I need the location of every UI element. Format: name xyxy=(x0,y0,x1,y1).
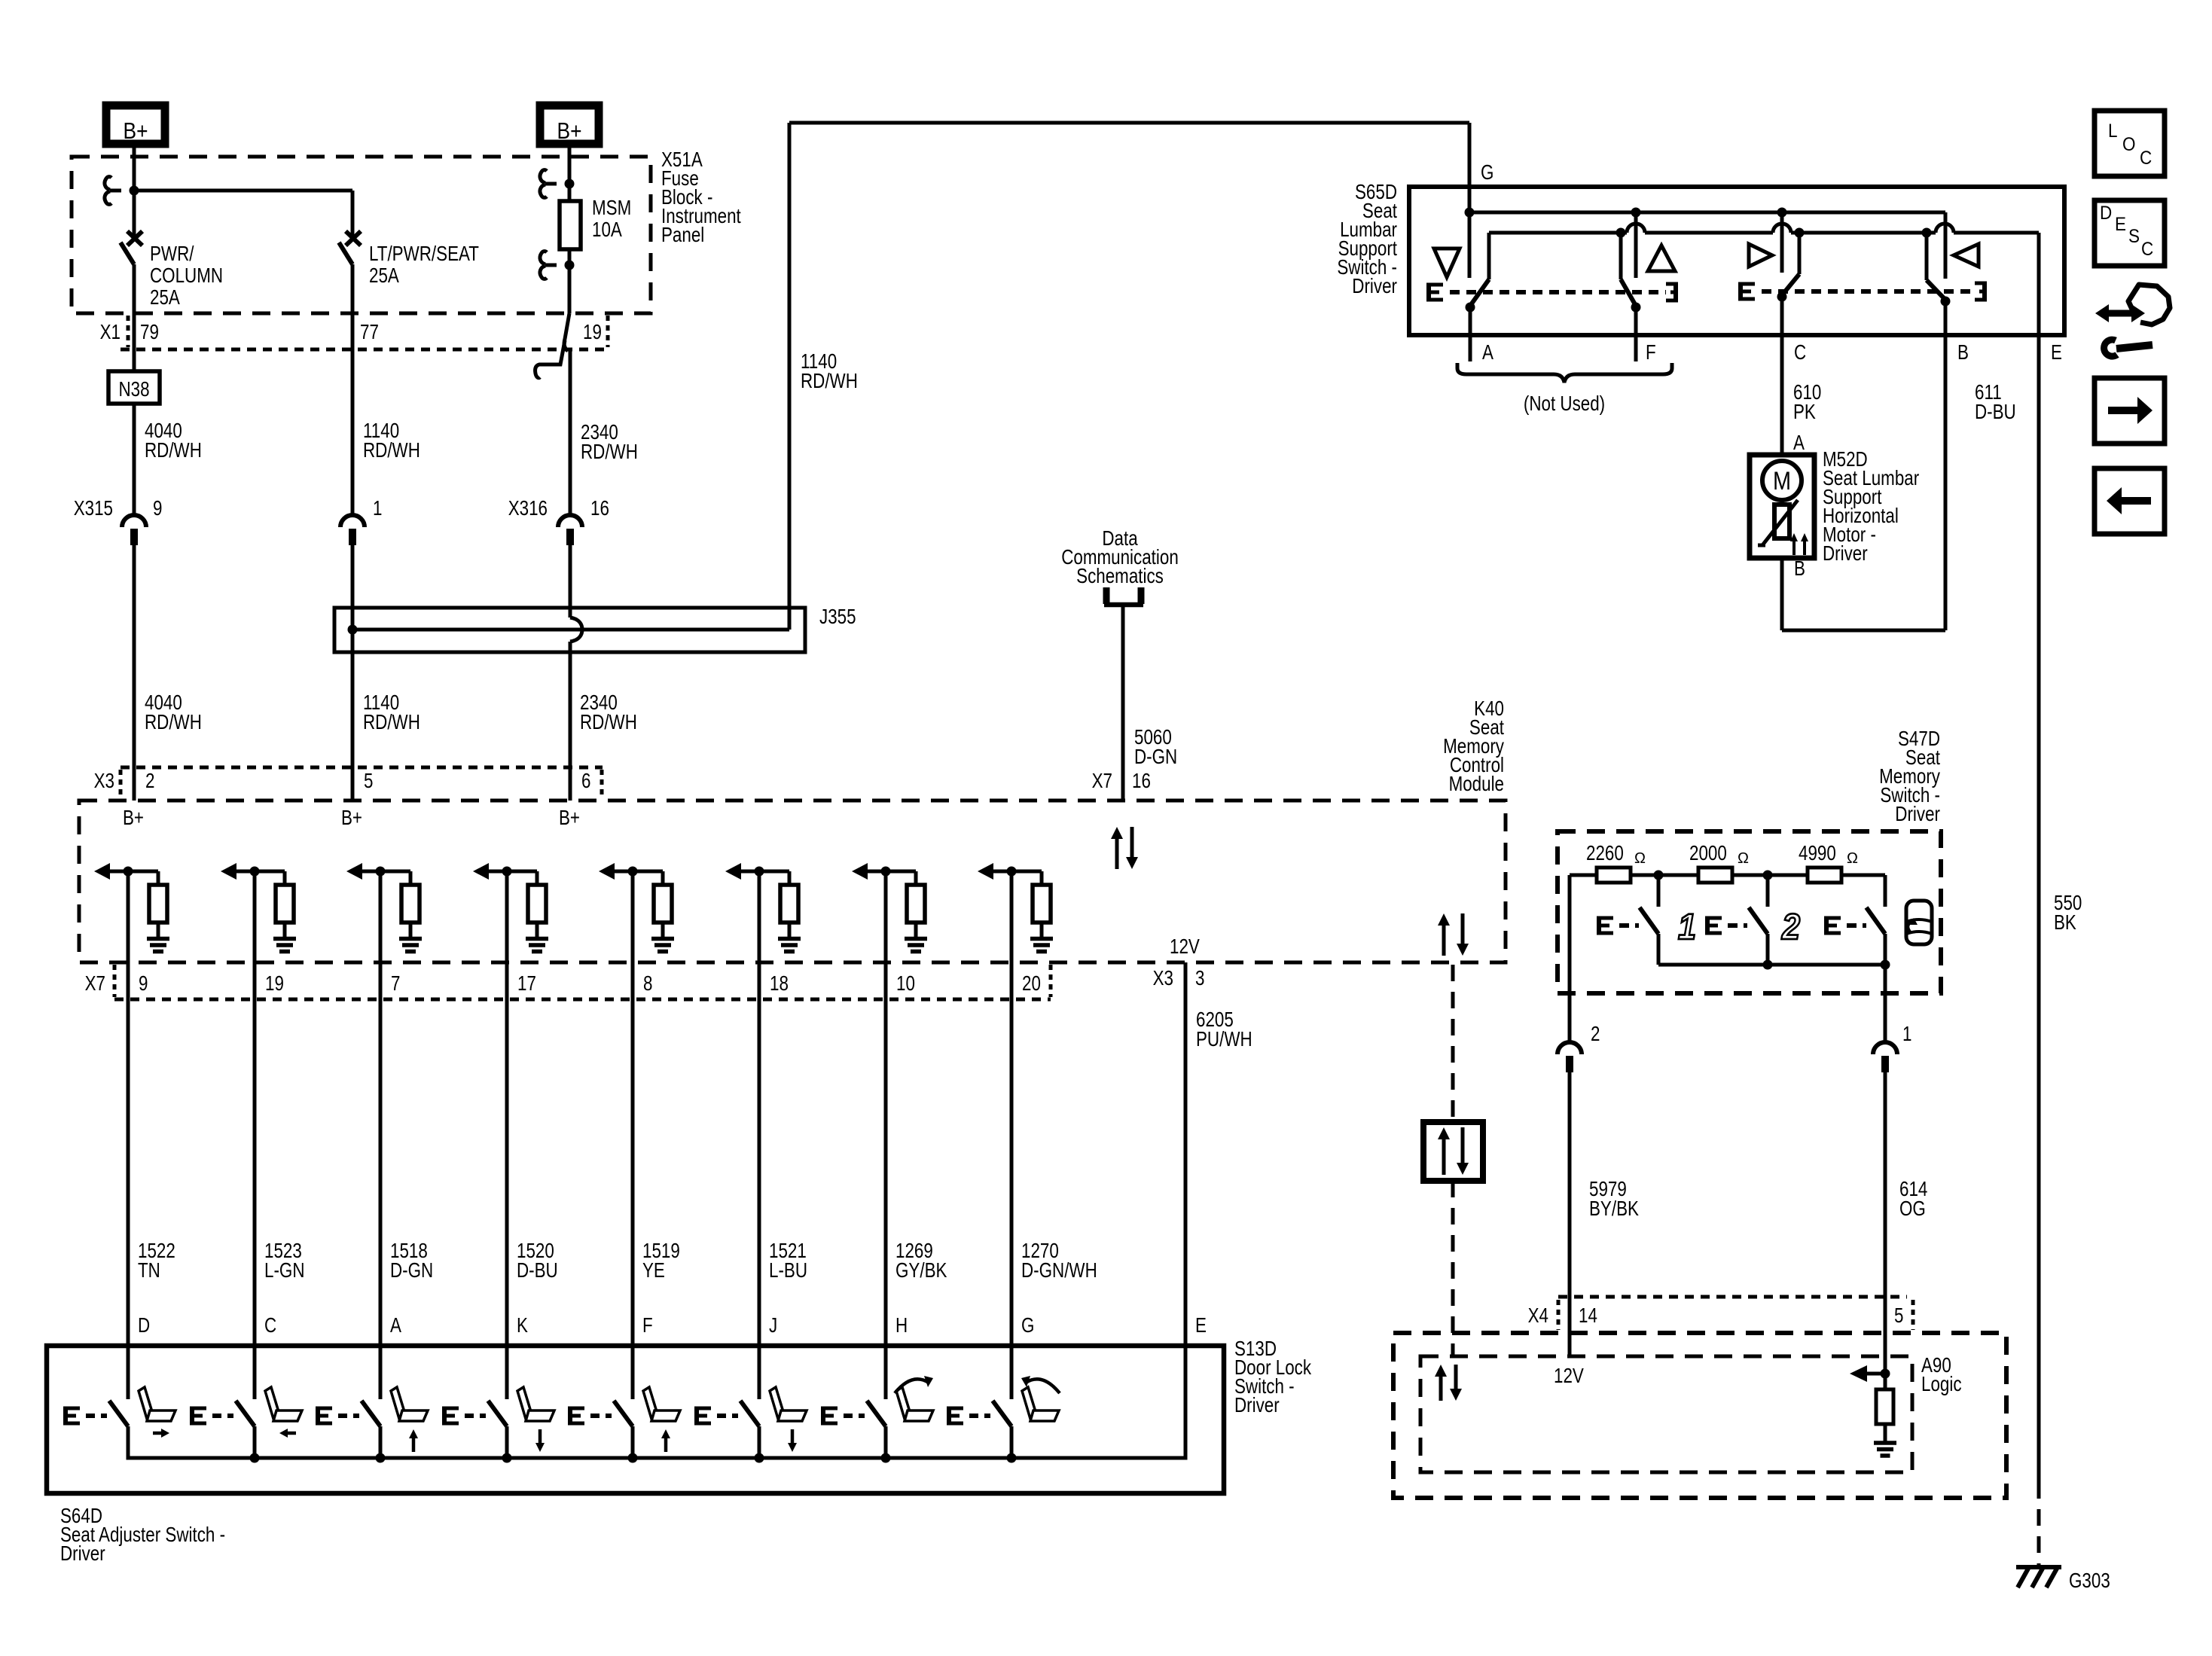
label S47D Seat Memory Switch - Driver xyxy=(1879,727,1940,826)
svg-text:K: K xyxy=(517,1314,528,1337)
svg-text:E: E xyxy=(1195,1314,1207,1337)
wire 1140 feed up and across to S65D xyxy=(789,123,1469,630)
S65D mechanical linkage (right pair) xyxy=(1741,282,1985,302)
wire 1140 to K40 pin 5 xyxy=(351,630,355,801)
svg-text:Module: Module xyxy=(1449,773,1504,796)
fuse block X51A (dashed outline) xyxy=(72,157,651,313)
K40 output driver cell 1: arrow, pull resistor, ground xyxy=(94,863,169,952)
svg-text:C: C xyxy=(1794,341,1806,364)
svg-text:D-BU: D-BU xyxy=(1975,401,2016,424)
connector X3 pin 3 xyxy=(1153,967,1205,990)
svg-text:D-GN: D-GN xyxy=(1134,746,1177,769)
module A90 outer boundary (dashed) xyxy=(1393,1333,2006,1498)
svg-text:X316: X316 xyxy=(508,497,548,520)
fuse MSM 10A xyxy=(560,146,581,313)
A90 logic input: arrow, resistor, ground xyxy=(1850,1365,1896,1456)
wire label 2340 RD/WH (upper) xyxy=(581,421,638,464)
svg-text:1: 1 xyxy=(1678,907,1696,947)
wire label 6205 PU/WH xyxy=(1196,1008,1252,1051)
svg-text:B: B xyxy=(1957,341,1969,364)
svg-text:RD/WH: RD/WH xyxy=(363,439,420,462)
wire G into switch xyxy=(1465,188,1475,278)
svg-text:RD/WH: RD/WH xyxy=(145,439,202,462)
bidirectional link symbol (boxed arrows) xyxy=(1423,1122,1483,1181)
module K40 Seat Memory Control Module (dashed box) xyxy=(79,801,1506,962)
svg-text:RD/WH: RD/WH xyxy=(145,711,202,734)
connector X315 pin 9 xyxy=(74,497,163,801)
wire label 1522 TN xyxy=(138,1240,175,1282)
svg-text:H: H xyxy=(895,1314,908,1337)
svg-text:25A: 25A xyxy=(369,264,399,288)
S65D mechanical linkage (left pair) xyxy=(1429,282,1676,303)
connector X7 pin 16 xyxy=(1092,770,1151,793)
svg-text:16: 16 xyxy=(590,497,609,520)
K40 output driver cell 4: arrow, pull resistor, ground xyxy=(473,863,548,952)
wire 2340 hop over splice bus xyxy=(570,618,582,642)
not-used brace (pins A,F) xyxy=(1457,363,1672,383)
wire 550 BK xyxy=(2037,335,2041,1565)
motor M52D Seat Lumbar Support Horizontal Motor - Driver xyxy=(1750,455,1814,558)
label K40 Seat Memory Control Module xyxy=(1443,697,1504,796)
svg-text:Driver: Driver xyxy=(1895,803,1940,826)
K40 output driver cell 2: arrow, pull resistor, ground xyxy=(221,863,296,952)
svg-text:G: G xyxy=(1021,1314,1034,1337)
svg-text:PU/WH: PU/WH xyxy=(1196,1028,1252,1051)
svg-text:14: 14 xyxy=(1579,1304,1597,1328)
connector row X7 (pins 9..20) xyxy=(114,965,1051,999)
svg-text:16: 16 xyxy=(1132,770,1151,793)
wire from B+ left into fuse block xyxy=(130,146,139,238)
svg-text:L-BU: L-BU xyxy=(769,1259,807,1282)
wire K40 X7 pin 18 down to seat switch xyxy=(758,871,761,1399)
wire label 1520 D-BU xyxy=(517,1240,558,1282)
bidirectional arrows inside A90 xyxy=(1435,1365,1462,1401)
svg-text:6: 6 xyxy=(581,770,590,793)
svg-text:10A: 10A xyxy=(592,218,622,242)
wire jumper from node to fuse LT/PWR/SEAT xyxy=(134,191,352,238)
svg-text:MSM: MSM xyxy=(592,197,631,220)
wire label 1521 L-BU xyxy=(769,1240,807,1282)
svg-text:17: 17 xyxy=(517,972,536,996)
K40 output driver cell 7: arrow, pull resistor, ground xyxy=(852,863,927,952)
svg-text:9: 9 xyxy=(139,972,148,996)
svg-text:D-GN/WH: D-GN/WH xyxy=(1021,1259,1097,1282)
car icon (set memory) xyxy=(1906,901,1932,944)
svg-text:4990: 4990 xyxy=(1799,842,1836,865)
svg-text:D: D xyxy=(2100,203,2112,224)
K40 output driver cell 6: arrow, pull resistor, ground xyxy=(725,863,801,952)
seat adjuster switch cell 3 xyxy=(318,1401,386,1463)
fuse PWR/COLUMN 25A (switch symbol with x contact) xyxy=(121,231,142,371)
svg-text:79: 79 xyxy=(140,321,159,344)
wire label 5060 D-GN xyxy=(1134,726,1177,769)
power terminal B+ (right, MSM feed) xyxy=(540,105,599,145)
svg-text:Logic: Logic xyxy=(1921,1373,1962,1396)
seat adjuster switch cell 1 xyxy=(66,1401,128,1458)
svg-text:18: 18 xyxy=(770,972,789,996)
svg-text:C: C xyxy=(2141,239,2153,260)
switch S64D Seat Adjuster Switch - Driver (outer box) xyxy=(47,1346,1224,1493)
wire K40 X7 pin 17 down to seat switch xyxy=(505,871,509,1399)
svg-text:X3: X3 xyxy=(94,770,114,793)
wire S47D pin 1 xyxy=(1884,965,1887,1042)
icon box LOC xyxy=(2095,111,2165,176)
S65D internal bus (second) with hops xyxy=(1489,224,2039,238)
wire 5060 D-GN xyxy=(1121,604,1125,801)
seat icon cell 8 xyxy=(1021,1376,1060,1421)
svg-text:LT/PWR/SEAT: LT/PWR/SEAT xyxy=(369,242,479,266)
svg-text:19: 19 xyxy=(583,321,602,344)
symbol arrow down (lumbar down) xyxy=(1434,249,1460,277)
switch pole A xyxy=(1466,233,1490,361)
svg-text:25A: 25A xyxy=(150,286,180,310)
svg-text:J: J xyxy=(769,1314,777,1337)
wire label 2340 RD/WH (lower) xyxy=(580,691,637,734)
wire label 1269 GY/BK xyxy=(895,1240,947,1282)
label S65D Seat Lumbar Support Switch - Driver xyxy=(1337,181,1397,298)
wire label 614 OG xyxy=(1899,1178,1927,1221)
svg-text:2260: 2260 xyxy=(1586,842,1624,865)
label M52D Seat Lumbar Support Horizontal Motor - Driver xyxy=(1823,448,1920,566)
svg-text:PK: PK xyxy=(1793,401,1816,424)
svg-text:G303: G303 xyxy=(2069,1569,2110,1593)
seat icon cell 6 xyxy=(770,1387,807,1452)
label X51A Fuse Block - Instrument Panel xyxy=(661,148,741,247)
svg-text:F: F xyxy=(1646,341,1656,364)
svg-text:D-GN: D-GN xyxy=(390,1259,433,1282)
wire S47D pin 2 xyxy=(1568,875,1572,1042)
wire label 1523 L-GN xyxy=(264,1240,305,1282)
svg-text:C: C xyxy=(264,1314,276,1337)
svg-text:C: C xyxy=(2140,148,2152,169)
icon box arrow right xyxy=(2095,378,2165,444)
seat adjuster switch cell 8 xyxy=(949,1401,1017,1463)
svg-text:E: E xyxy=(2051,341,2062,364)
svg-text:1: 1 xyxy=(373,497,382,520)
seat adjuster switch cell 2 xyxy=(192,1401,260,1463)
wire lead jog at pin 19 xyxy=(564,313,569,351)
clip above fuse MSM xyxy=(540,170,557,198)
svg-text:Driver: Driver xyxy=(60,1542,105,1566)
wire label 4040 RD/WH (upper) xyxy=(145,419,202,462)
label A90 Logic xyxy=(1921,1354,1962,1396)
wire label 1140 RD/WH (upper) xyxy=(363,419,420,462)
svg-text:B+: B+ xyxy=(559,807,580,830)
svg-text:B+: B+ xyxy=(123,807,144,830)
svg-text:TN: TN xyxy=(138,1259,160,1282)
switch S13D Door Lock Switch - Driver (inner box edge + bus) xyxy=(128,1346,1185,1458)
svg-text:PWR/: PWR/ xyxy=(150,242,194,266)
svg-text:N38: N38 xyxy=(118,378,149,401)
clip below fuse MSM xyxy=(540,252,557,279)
switch S47D Seat Memory Switch - Driver (dashed box) xyxy=(1558,831,1941,993)
seat adjuster switch cell 7 xyxy=(823,1401,891,1463)
svg-text:Driver: Driver xyxy=(1823,542,1868,566)
resistor 2260 ohm xyxy=(1570,842,1646,883)
connector row X3 (pins 2/5/6) xyxy=(121,767,603,798)
seat icon cell 2 xyxy=(265,1387,302,1438)
connector X315 pin 1 xyxy=(340,497,382,630)
svg-text:77: 77 xyxy=(360,321,379,344)
seat icon cell 4 xyxy=(517,1387,554,1452)
svg-text:Schematics: Schematics xyxy=(1076,565,1164,588)
svg-text:Ω: Ω xyxy=(1847,850,1858,867)
ground G303 xyxy=(2016,1567,2061,1587)
svg-text:B+: B+ xyxy=(557,118,582,144)
svg-text:GY/BK: GY/BK xyxy=(895,1259,947,1282)
S65D internal bus (top) xyxy=(1469,208,1945,218)
svg-text:D: D xyxy=(138,1314,150,1337)
wire N38 to X315 xyxy=(133,404,136,514)
svg-text:X4: X4 xyxy=(1528,1304,1548,1328)
svg-text:YE: YE xyxy=(642,1259,665,1282)
bidirectional signal arrows (X7/16) xyxy=(1111,827,1138,869)
memory switch 3 (set) xyxy=(1826,907,1885,965)
wire label 610 PK xyxy=(1793,381,1821,424)
svg-text:BK: BK xyxy=(2054,911,2076,935)
fuse LT/PWR/SEAT 25A xyxy=(339,231,361,514)
svg-text:L: L xyxy=(2108,120,2118,142)
seat icon cell 1 xyxy=(139,1387,175,1438)
connector row X4 (pins 14 / 5) xyxy=(1558,1297,1913,1330)
svg-text:12V: 12V xyxy=(1554,1365,1584,1388)
wire 611 D-BU (pin B to motor B) xyxy=(1782,335,1945,630)
wire label 1270 D-GN/WH xyxy=(1021,1240,1097,1282)
seat icon cell 7 xyxy=(895,1376,933,1421)
seat adjuster switch cell 4 xyxy=(444,1401,512,1463)
svg-text:Driver: Driver xyxy=(1234,1394,1280,1417)
bus to memory switch 3 xyxy=(1841,875,1885,907)
off-page reference: Data Communication Schematics xyxy=(1061,527,1179,588)
svg-text:Panel: Panel xyxy=(661,224,704,247)
connector row X1 (pins 79 / 77 / 19) xyxy=(121,316,610,349)
svg-text:7: 7 xyxy=(391,972,400,996)
dashed control link to A90 xyxy=(1451,1181,1455,1355)
off-page bracket xyxy=(1104,587,1143,605)
icon car diagnostic (double arrow, car outline, wrench) xyxy=(2095,285,2170,356)
wire label 1140 RD/WH (lower) xyxy=(363,691,420,734)
svg-text:S: S xyxy=(2128,226,2140,247)
svg-text:2: 2 xyxy=(145,770,154,793)
svg-text:COLUMN: COLUMN xyxy=(150,264,223,288)
svg-text:X7: X7 xyxy=(85,972,105,996)
svg-text:1: 1 xyxy=(1902,1023,1911,1046)
wire label 4040 RD/WH (lower) xyxy=(145,691,202,734)
label S64D Seat Adjuster Switch - Driver xyxy=(60,1505,225,1566)
K40 output driver cell 3: arrow, pull resistor, ground xyxy=(346,863,422,952)
memory switch 1 xyxy=(1599,875,1658,965)
label S13D Door Lock Switch - Driver xyxy=(1234,1337,1311,1417)
wire K40 X7 pin 9 down to seat switch xyxy=(127,871,130,1399)
splice pack J355 xyxy=(334,605,856,652)
wire K40 X7 pin 7 down to seat switch xyxy=(379,871,383,1399)
label LT/PWR/SEAT 25A xyxy=(369,242,479,288)
svg-text:5: 5 xyxy=(364,770,373,793)
switch pole C xyxy=(1777,212,1800,335)
svg-text:OG: OG xyxy=(1899,1197,1926,1221)
seat icon cell 5 xyxy=(643,1387,680,1452)
svg-text:RD/WH: RD/WH xyxy=(580,711,637,734)
switch pole B xyxy=(1927,212,1951,335)
connector at S47D pin 2 xyxy=(1558,1042,1582,1355)
memory switch 2 xyxy=(1707,875,1768,965)
svg-text:X315: X315 xyxy=(74,497,113,520)
K40 output driver cell 5: arrow, pull resistor, ground xyxy=(599,863,674,952)
symbol arrow left (lumbar back) xyxy=(1954,244,1979,267)
svg-text:X1: X1 xyxy=(100,321,121,344)
svg-text:3: 3 xyxy=(1195,967,1204,990)
wire label 1140 RD/WH (feed to S65D) xyxy=(801,350,858,393)
svg-text:B+: B+ xyxy=(341,807,362,830)
wire label 611 D-BU xyxy=(1975,381,2016,424)
svg-text:Ω: Ω xyxy=(1634,850,1646,867)
wire label 5979 BY/BK xyxy=(1589,1178,1639,1221)
svg-text:A: A xyxy=(390,1314,401,1337)
wire to pin E xyxy=(2037,233,2041,335)
svg-text:10: 10 xyxy=(896,972,915,996)
resistor 2000 ohm xyxy=(1631,842,1749,883)
svg-text:RD/WH: RD/WH xyxy=(581,441,638,464)
svg-text:2000: 2000 xyxy=(1689,842,1727,865)
wire label 1519 YE xyxy=(642,1240,680,1282)
connector at S47D pin 1 xyxy=(1873,1042,1897,1374)
wire 610 PK (pin C to motor) xyxy=(1780,335,1784,455)
svg-text:RD/WH: RD/WH xyxy=(801,370,858,393)
connector X316 pin 16 xyxy=(508,497,609,618)
seat adjuster switch cell 5 xyxy=(570,1401,638,1463)
svg-text:2: 2 xyxy=(1591,1023,1600,1046)
wire K40 X7 pin 10 down to seat switch xyxy=(884,871,888,1399)
svg-text:G: G xyxy=(1481,161,1493,185)
svg-text:8: 8 xyxy=(643,972,652,996)
splice bus inside J355 xyxy=(348,625,790,635)
module A90 Logic (dashed box) xyxy=(1420,1356,1912,1472)
svg-text:L-GN: L-GN xyxy=(264,1259,305,1282)
wire label 550 BK xyxy=(2054,892,2082,935)
seat adjuster switch cell 6 xyxy=(697,1401,764,1463)
wire K40 X7 pin 20 down to seat switch xyxy=(1010,871,1014,1399)
svg-text:F: F xyxy=(642,1314,653,1337)
svg-text:9: 9 xyxy=(153,497,162,520)
resistor 4990 ohm xyxy=(1732,842,1858,883)
icon box DESC xyxy=(2095,200,2165,266)
svg-text:M: M xyxy=(1773,466,1791,496)
svg-text:5: 5 xyxy=(1894,1304,1903,1328)
svg-text:19: 19 xyxy=(265,972,284,996)
symbol arrow right (lumbar fwd) xyxy=(1749,244,1772,267)
bidirectional signal arrows (K40 internal, right) xyxy=(1438,913,1469,956)
wire 2340 to K40 pin 6 xyxy=(569,642,572,801)
svg-text:E: E xyxy=(2115,214,2126,235)
svg-text:BY/BK: BY/BK xyxy=(1589,1197,1639,1221)
wire label 1518 D-GN xyxy=(390,1240,433,1282)
svg-text:B: B xyxy=(1794,557,1805,581)
svg-text:12V: 12V xyxy=(1170,935,1200,959)
svg-text:RD/WH: RD/WH xyxy=(363,711,420,734)
svg-text:Ω: Ω xyxy=(1738,850,1749,867)
svg-text:Driver: Driver xyxy=(1352,275,1397,298)
switch pole F xyxy=(1621,212,1641,361)
dashed control link down from K40 xyxy=(1451,965,1455,1122)
label PWR/COLUMN 25A xyxy=(150,242,223,310)
wire 2340 below pin 19 xyxy=(569,351,572,514)
symbol arrow up (lumbar up) xyxy=(1648,246,1675,271)
svg-text:A: A xyxy=(1793,432,1805,455)
switch S65D Seat Lumbar Support Switch - Driver (box) xyxy=(1409,187,2064,335)
module N38 xyxy=(108,371,160,404)
svg-text:D-BU: D-BU xyxy=(517,1259,558,1282)
wire K40 X7 pin 8 down to seat switch xyxy=(631,871,635,1399)
svg-text:A: A xyxy=(1482,341,1493,364)
svg-text:2: 2 xyxy=(1781,907,1800,947)
label MSM 10A xyxy=(592,197,631,242)
svg-text:O: O xyxy=(2122,134,2136,155)
clip at node (B+ left) xyxy=(105,177,121,205)
seat icon cell 3 xyxy=(391,1387,428,1452)
svg-text:X7: X7 xyxy=(1092,770,1112,793)
power terminal B+ (left) xyxy=(106,105,165,145)
S47D bottom bus xyxy=(1658,960,1890,970)
svg-text:B+: B+ xyxy=(124,118,148,144)
K40 output driver cell 8: arrow, pull resistor, ground xyxy=(978,863,1053,952)
svg-text:20: 20 xyxy=(1022,972,1041,996)
wire K40 X7 pin 19 down to seat switch xyxy=(253,871,257,1399)
svg-text:X3: X3 xyxy=(1153,967,1173,990)
wire 6205 PU/WH xyxy=(1184,962,1188,1458)
icon box arrow left xyxy=(2095,468,2165,534)
svg-text:(Not Used): (Not Used) xyxy=(1524,392,1605,416)
svg-text:J355: J355 xyxy=(819,605,856,629)
